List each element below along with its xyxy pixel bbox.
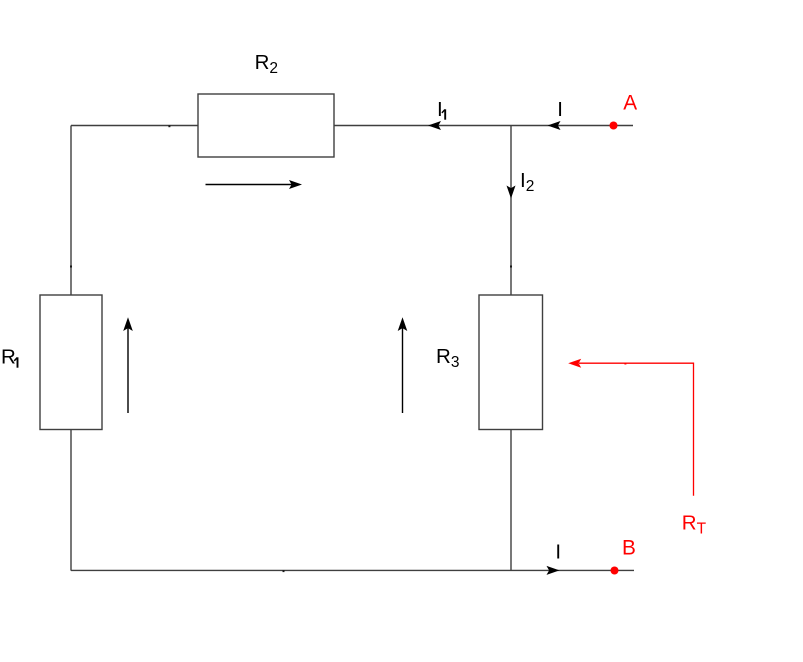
svg-text:R: R xyxy=(1,346,16,369)
wire joint on left vertical wire xyxy=(70,266,72,268)
svg-text:I: I xyxy=(557,98,563,121)
wire joint on top wire xyxy=(168,125,170,127)
node B dot xyxy=(611,567,619,575)
arrow I2 on vertical wire (pointing down) xyxy=(507,186,516,199)
node A dot xyxy=(610,122,618,130)
wire top right horizontal (R2 right terminal to node A) xyxy=(334,125,633,127)
label I1 xyxy=(437,98,445,121)
arrow up beside R3 xyxy=(398,317,408,413)
wire R1 bottom vertical xyxy=(70,430,72,571)
wire joint on middle vertical wire xyxy=(510,266,512,268)
arrow up beside R1 xyxy=(123,317,133,413)
resistor R3 xyxy=(479,295,543,430)
arrow I on top wire near node A (pointing left) xyxy=(548,121,561,130)
resistor R1 xyxy=(40,295,102,430)
svg-text:I: I xyxy=(437,98,443,121)
wire R3 bottom vertical xyxy=(510,430,512,571)
wire joint on red RT arrow xyxy=(624,363,626,365)
resistor R2 xyxy=(198,94,334,157)
wire junction vertical (top node down to R3 top) xyxy=(510,126,512,296)
svg-text:A: A xyxy=(623,92,637,115)
arrow current direction under R2 (pointing right) xyxy=(206,180,303,189)
wire bottom horizontal xyxy=(71,569,634,571)
red arrow RT pointing at R3 xyxy=(568,359,693,496)
arrow I on bottom wire (pointing right) xyxy=(547,566,560,575)
svg-text:I: I xyxy=(555,541,561,564)
svg-text:B: B xyxy=(622,537,636,560)
label R1 xyxy=(1,346,18,369)
arrow I1 on top wire (pointing left) xyxy=(428,121,441,130)
wire joint on bottom wire xyxy=(283,570,285,572)
wire top-left horizontal (node between R1 and R2) xyxy=(71,125,198,127)
wire left vertical (R2 left terminal down to R1 top) xyxy=(70,126,72,296)
